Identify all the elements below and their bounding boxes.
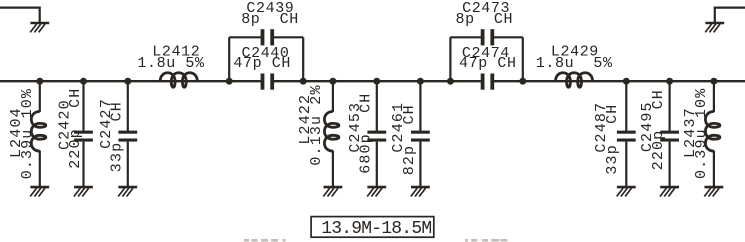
svg-text:33p CH: 33p CH xyxy=(604,104,621,175)
svg-text:680p CH: 680p CH xyxy=(357,93,374,174)
svg-text:8p CH: 8p CH xyxy=(241,11,299,28)
svg-text:220p CH: 220p CH xyxy=(650,89,667,170)
svg-text:0.13u 2%: 0.13u 2% xyxy=(308,84,325,165)
svg-text:1.8u 5%: 1.8u 5% xyxy=(137,55,205,72)
svg-text:33p CH: 33p CH xyxy=(109,101,126,172)
svg-text:0.39u 10%: 0.39u 10% xyxy=(19,88,36,179)
svg-text:47p CH: 47p CH xyxy=(233,55,291,72)
svg-text:13.9M-18.5M: 13.9M-18.5M xyxy=(321,219,431,239)
svg-text:0.39u 10%: 0.39u 10% xyxy=(693,88,710,179)
svg-text:82p CH: 82p CH xyxy=(401,104,418,175)
svg-text:220p CH: 220p CH xyxy=(67,88,84,169)
svg-text:1.8u 5%: 1.8u 5% xyxy=(536,55,613,72)
svg-text:47p CH: 47p CH xyxy=(459,55,517,72)
svg-text:8p CH: 8p CH xyxy=(456,11,514,28)
